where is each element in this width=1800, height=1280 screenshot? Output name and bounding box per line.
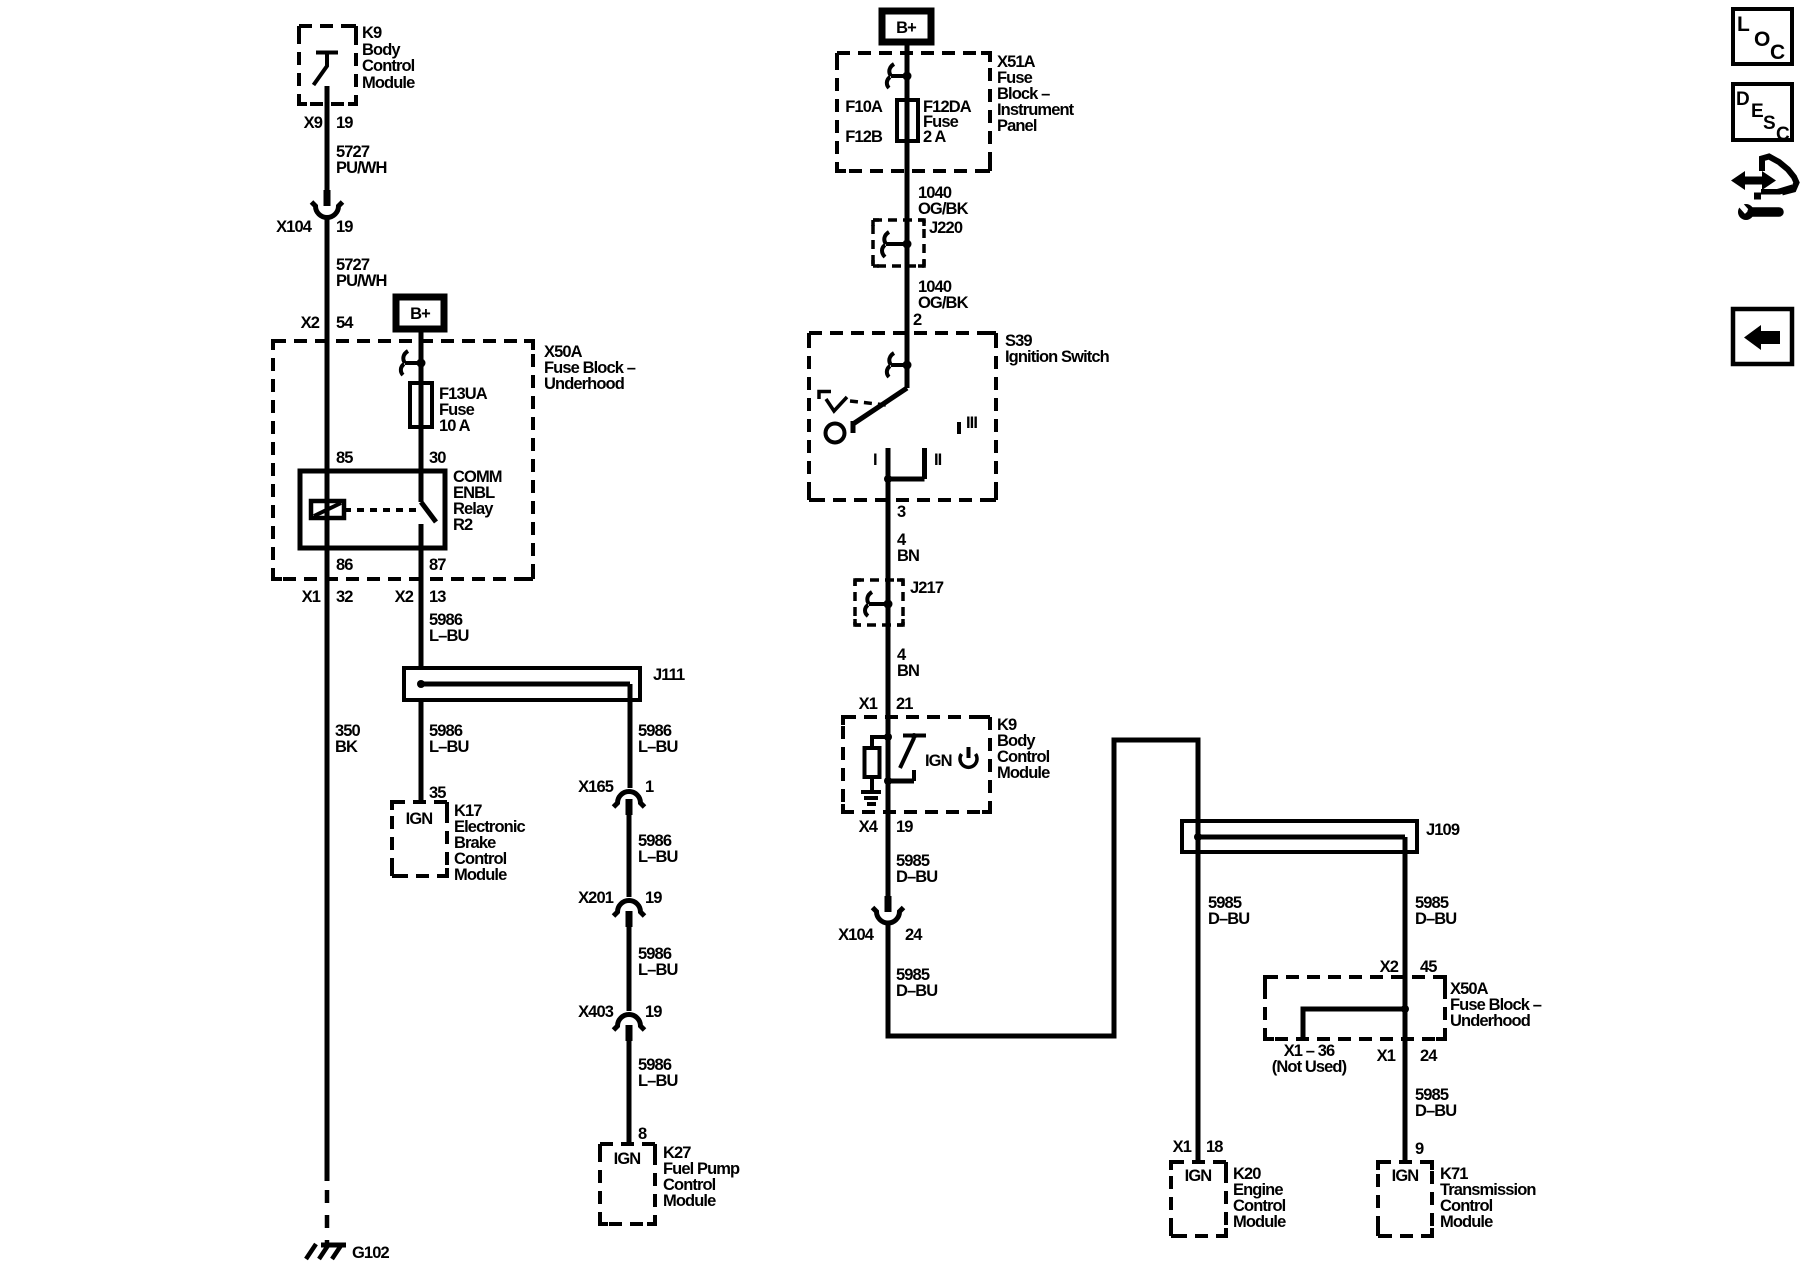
back arrow button: [1733, 309, 1792, 364]
svg-text:K9: K9: [362, 24, 382, 42]
splice pack J111: [404, 668, 640, 700]
svg-text:Ignition Switch: Ignition Switch: [1005, 348, 1110, 366]
wire J109 right branch to K71: [1403, 837, 1408, 1162]
wire X104 to relay pin 85 and down to ground: [325, 219, 330, 1181]
wrench bar: [1752, 207, 1779, 217]
splice pack J109: [1182, 821, 1417, 852]
svg-text:D–BU: D–BU: [1415, 910, 1456, 928]
svg-text:1: 1: [645, 778, 654, 796]
vehicle data / wrench icon: [1731, 157, 1797, 221]
K71 Transmission Control Module box: [1378, 1162, 1432, 1236]
svg-text:L–BU: L–BU: [638, 848, 678, 866]
svg-text:B+: B+: [896, 19, 916, 37]
svg-text:24: 24: [905, 926, 923, 944]
position I contact: [886, 448, 891, 479]
svg-text:D: D: [1736, 89, 1750, 110]
in-line harness connector J220: [873, 220, 924, 266]
ignition switch arm: [853, 388, 907, 433]
svg-text:J217: J217: [910, 579, 944, 597]
svg-text:BN: BN: [897, 547, 919, 565]
inline connector X104 (female socket): [312, 202, 343, 218]
svg-text:J220: J220: [929, 219, 963, 237]
fuse F12DA 2A: [897, 100, 918, 141]
svg-text:B+: B+: [410, 305, 430, 323]
K17 Electronic Brake Control Module box: [392, 802, 447, 876]
dashed mech link: [850, 401, 886, 405]
loop arrow lower bar: [1754, 185, 1792, 200]
MIDDLE CIRCUIT: [809, 11, 1198, 1036]
svg-text:L–BU: L–BU: [638, 738, 678, 756]
S39 Ignition Switch box: [809, 333, 996, 500]
X201 male pin: [626, 911, 633, 927]
svg-text:Module: Module: [454, 866, 507, 884]
svg-text:IGN: IGN: [406, 810, 433, 828]
svg-text:X1: X1: [302, 588, 321, 606]
not-used stub X1-36: [1303, 1009, 1405, 1039]
svg-text:D–BU: D–BU: [896, 868, 937, 886]
K9 Body Control Module (top-left) box: [299, 26, 356, 104]
svg-text:F10A: F10A: [845, 98, 883, 116]
svg-text:J111: J111: [653, 666, 685, 684]
relay coil-switch dashed link: [344, 508, 417, 512]
svg-text:13: 13: [429, 588, 446, 606]
svg-text:32: 32: [336, 588, 353, 606]
svg-text:L–BU: L–BU: [638, 961, 678, 979]
relay switch arm: [421, 502, 436, 522]
svg-text:85: 85: [336, 449, 353, 467]
position II contact: [888, 448, 925, 479]
svg-text:Underhood: Underhood: [1450, 1012, 1530, 1030]
K20 Engine Control Module box: [1171, 1162, 1226, 1236]
svg-text:III: III: [966, 414, 977, 432]
wire X104 routed right and up to J109: [888, 740, 1198, 1036]
B+ power feed box: [396, 297, 444, 329]
svg-text:Control: Control: [362, 57, 415, 75]
svg-text:X9: X9: [304, 114, 323, 132]
inline connector X403 pin 19 (female socket): [614, 1015, 645, 1031]
svg-text:X2: X2: [301, 314, 320, 332]
ground G102: [321, 1243, 346, 1248]
svg-text:Module: Module: [663, 1192, 716, 1210]
svg-text:87: 87: [429, 556, 446, 574]
K9 sense switch: [900, 736, 926, 782]
wire B+ through X51A fuse to S39: [905, 42, 910, 388]
node: switch common: [884, 475, 892, 483]
svg-text:D–BU: D–BU: [1415, 1102, 1456, 1120]
svg-text:IGN: IGN: [1185, 1167, 1212, 1185]
X165 male pin: [626, 799, 633, 815]
svg-text:54: 54: [336, 314, 354, 332]
LOC button: [1733, 9, 1792, 64]
wire X403 to K27 pin 8: [627, 1041, 632, 1144]
dashed wire to ground: [325, 1190, 330, 1244]
svg-text:D–BU: D–BU: [1208, 910, 1249, 928]
loop arrow outline: [1762, 157, 1797, 193]
resistor in K9: [865, 748, 880, 777]
inline connector X104 pin 19 (male pin): [324, 190, 331, 206]
battery feed terminal in X50A: [405, 361, 421, 365]
svg-text:X403: X403: [578, 1003, 614, 1021]
X403 male pin: [626, 1025, 633, 1041]
wire B+ to fuse F13UA and relay pin 30: [419, 332, 424, 502]
svg-text:21: 21: [896, 695, 913, 713]
J220 terminal: [886, 242, 907, 246]
svg-text:IGN: IGN: [1392, 1167, 1419, 1185]
S39 terminal: [891, 363, 907, 367]
svg-text:Module: Module: [1440, 1213, 1493, 1231]
svg-text:19: 19: [336, 114, 353, 132]
K9 pull-down branch: [872, 737, 888, 748]
svg-text:X104: X104: [838, 926, 875, 944]
svg-text:L–BU: L–BU: [429, 627, 469, 645]
svg-text:F12B: F12B: [845, 128, 883, 146]
double arrow: [1731, 171, 1776, 190]
svg-text:OG/BK: OG/BK: [918, 294, 969, 312]
svg-text:L: L: [1737, 13, 1750, 36]
svg-text:S: S: [1763, 113, 1776, 134]
J109 internal bus: [1198, 835, 1405, 840]
earth ground in K9: [861, 792, 881, 804]
dashed box corner ticks: [273, 26, 1445, 1236]
svg-text:35: 35: [429, 784, 446, 802]
battery feed terminal in X51A: [891, 74, 907, 78]
svg-text:X2: X2: [395, 588, 414, 606]
svg-text:OG/BK: OG/BK: [918, 200, 969, 218]
svg-text:19: 19: [645, 889, 662, 907]
wire K9 pin X9-19 down to X104: [325, 86, 330, 190]
svg-text:BK: BK: [335, 738, 358, 756]
svg-text:X2: X2: [1380, 958, 1399, 976]
svg-text:(Not Used): (Not Used): [1272, 1058, 1347, 1076]
svg-text:10 A: 10 A: [439, 417, 471, 435]
svg-text:BN: BN: [897, 662, 919, 680]
svg-text:X201: X201: [578, 889, 614, 907]
svg-text:D–BU: D–BU: [896, 982, 937, 1000]
svg-text:3: 3: [897, 503, 906, 521]
in-line harness connector J217: [855, 580, 903, 625]
svg-text:L–BU: L–BU: [429, 738, 469, 756]
svg-text:Panel: Panel: [997, 117, 1037, 135]
svg-text:L–BU: L–BU: [638, 1072, 678, 1090]
RIGHT CIRCUIT: [1171, 821, 1542, 1236]
svg-text:J109: J109: [1426, 821, 1460, 839]
X51A Fuse Block Instrument Panel box: [837, 53, 990, 171]
svg-text:Module: Module: [1233, 1213, 1286, 1231]
node: X50A junction: [1401, 1005, 1409, 1013]
wrench head: [1738, 204, 1754, 220]
svg-text:86: 86: [336, 556, 353, 574]
lock position symbol: [819, 392, 847, 412]
X50A Fuse Block Underhood box: [273, 341, 533, 579]
svg-text:PU/WH: PU/WH: [336, 272, 387, 290]
node: J109 junction: [1194, 833, 1202, 841]
COMM ENBL Relay R2 box: [300, 471, 445, 548]
position III contact: [957, 422, 961, 434]
wire J111 right branch to X165: [628, 684, 633, 788]
svg-text:9: 9: [1415, 1140, 1424, 1158]
svg-text:Module: Module: [997, 764, 1050, 782]
X104 female socket: [873, 908, 904, 924]
DESC button: [1733, 84, 1792, 140]
node: J111 junction: [417, 680, 425, 688]
svg-text:II: II: [934, 451, 942, 469]
svg-text:2: 2: [913, 311, 922, 329]
wire J111 to K17 pin 35: [419, 700, 424, 802]
svg-text:PU/WH: PU/WH: [336, 159, 387, 177]
wire X165 to X201: [627, 814, 632, 897]
inline connector X165 pin 1 (female socket): [614, 792, 645, 808]
svg-text:19: 19: [645, 1003, 662, 1021]
J111 internal bus: [421, 682, 630, 687]
svg-text:R2: R2: [453, 516, 473, 534]
relay coil: [311, 501, 344, 518]
node: K9 lower junction: [884, 777, 892, 785]
svg-text:X1: X1: [1377, 1047, 1396, 1065]
svg-text:Module: Module: [362, 74, 415, 92]
svg-text:8: 8: [638, 1125, 647, 1143]
switch inside K9 BCM (ignition feed driver): [314, 53, 339, 86]
svg-text:24: 24: [1420, 1047, 1438, 1065]
svg-text:X4: X4: [859, 818, 879, 836]
svg-text:O: O: [1754, 28, 1770, 51]
svg-text:C: C: [1776, 124, 1790, 145]
svg-text:X1: X1: [1173, 1138, 1192, 1156]
inline connector X201 pin 19 (female socket): [614, 901, 645, 916]
svg-text:I: I: [873, 451, 877, 469]
svg-text:G102: G102: [352, 1244, 389, 1262]
J217 terminal: [869, 602, 888, 606]
svg-text:X165: X165: [578, 778, 614, 796]
svg-text:E: E: [1751, 101, 1764, 122]
svg-text:IGN: IGN: [614, 1150, 641, 1168]
node: K9 input junction: [884, 733, 892, 741]
wire S39 pin 3 down through J217 and K9 to X104: [886, 479, 891, 896]
B+ power feed box: [882, 11, 931, 42]
svg-text:X104: X104: [276, 218, 313, 236]
inline connector X104 pin 24 (male pin): [885, 896, 892, 912]
svg-text:19: 19: [896, 818, 913, 836]
LEFT CIRCUIT: [273, 24, 740, 1262]
svg-text:Underhood: Underhood: [544, 375, 624, 393]
svg-text:18: 18: [1206, 1138, 1223, 1156]
svg-text:2 A: 2 A: [923, 128, 946, 146]
K27 Fuel Pump Control Module box: [600, 1144, 655, 1224]
wire X201 to X403: [627, 927, 632, 1011]
X50A Fuse Block Underhood (right) box: [1265, 977, 1445, 1039]
wire J109 left branch to K20: [1196, 821, 1201, 1162]
CORNER ICONS: [1731, 9, 1797, 364]
svg-text:C: C: [1770, 41, 1785, 64]
svg-text:30: 30: [429, 449, 446, 467]
fuse F13UA 10A: [410, 383, 432, 427]
svg-text:45: 45: [1420, 958, 1437, 976]
relay switch fixed contact to pin 87: [419, 524, 424, 668]
svg-text:IGN: IGN: [925, 752, 952, 770]
power icon: [960, 754, 977, 767]
svg-text:X1: X1: [859, 695, 878, 713]
K9 Body Control Module (middle) box: [843, 717, 990, 812]
ignition switch rotor circle: [826, 424, 845, 443]
svg-text:19: 19: [336, 218, 353, 236]
